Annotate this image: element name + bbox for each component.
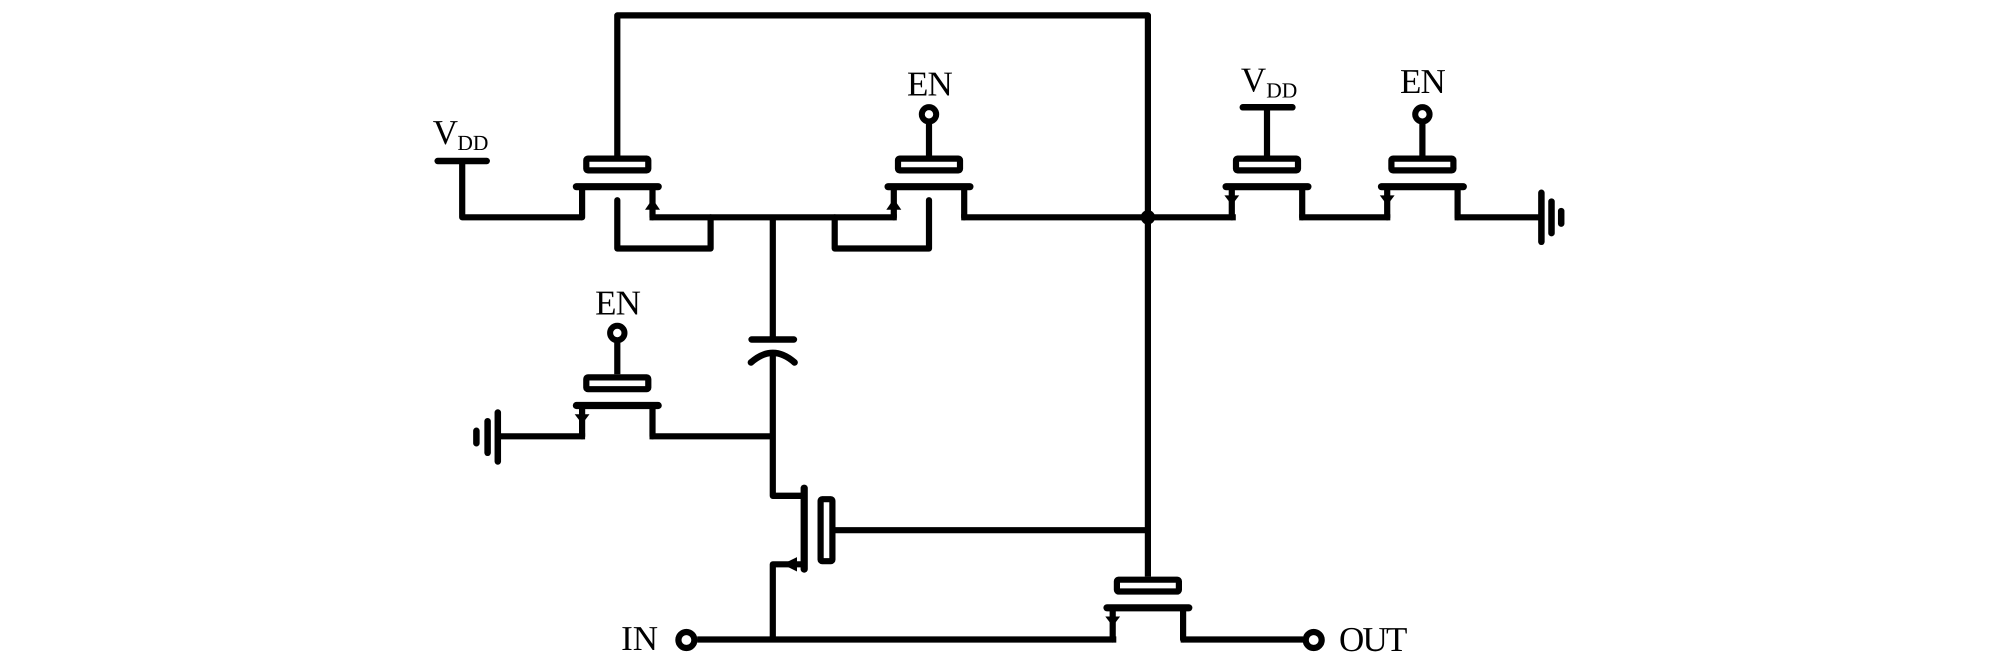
svg-text:EN: EN	[595, 283, 640, 322]
svg-text:DD: DD	[457, 131, 488, 155]
svg-text:DD: DD	[1266, 79, 1297, 103]
svg-text:V: V	[433, 113, 458, 152]
svg-text:EN: EN	[1400, 62, 1445, 101]
svg-text:EN: EN	[907, 64, 952, 103]
svg-text:V: V	[1241, 61, 1266, 100]
svg-text:OUT: OUT	[1339, 620, 1407, 659]
svg-text:IN: IN	[621, 619, 658, 658]
